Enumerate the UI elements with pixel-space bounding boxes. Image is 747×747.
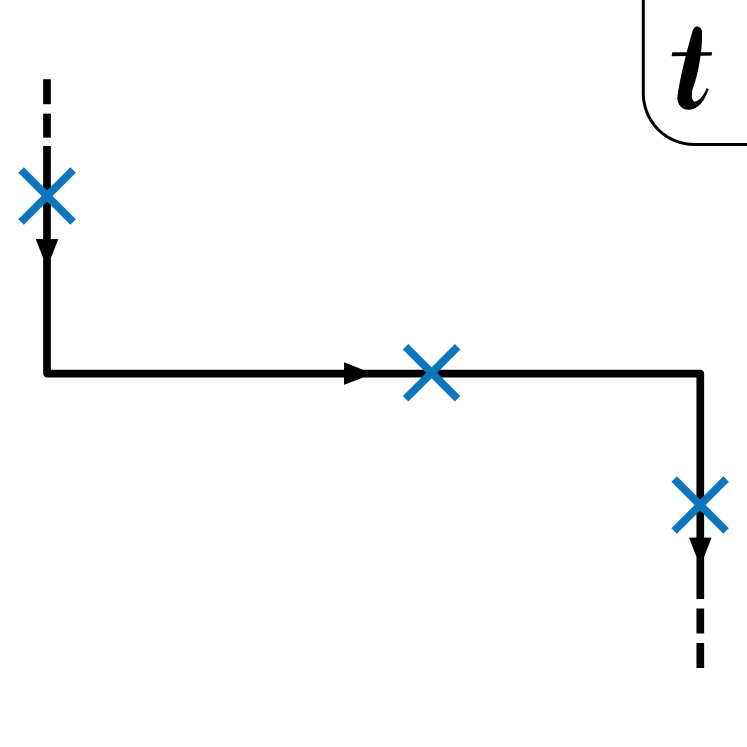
wire: dashed outgoing segment bottom-right (696, 609, 704, 669)
label t (math italic) (677, 26, 708, 109)
label t crossbar (672, 52, 713, 56)
node X1 (blue cross on left vertical wire) (21, 170, 73, 222)
arrowhead on right vertical wire (pointing down) (689, 538, 712, 567)
arrowhead on left vertical wire (pointing down) (36, 239, 59, 268)
node X3 (blue cross on right vertical wire) (674, 479, 726, 531)
arrowhead on horizontal wire (pointing right) (344, 362, 373, 385)
wire: dashed incoming segment top-left (43, 79, 51, 137)
node X2 (blue cross on horizontal wire) (406, 347, 458, 399)
wire: main solid path (down, right, down) (47, 146, 700, 599)
label box (rounded corner frame, clipped at top-right) (643, 0, 747, 145)
